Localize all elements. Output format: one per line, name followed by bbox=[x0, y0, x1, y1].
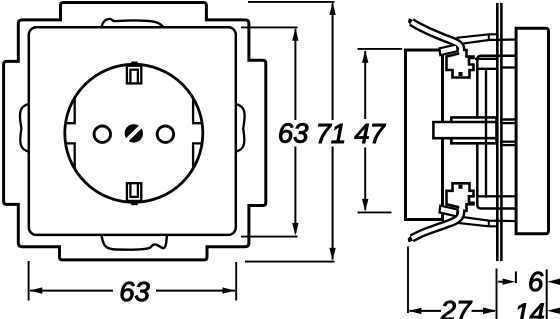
dimension 47: dimension line and arrows bbox=[364, 51, 366, 119]
top claw arm band bbox=[412, 22, 462, 50]
support ring (edge-on) bbox=[496, 3, 499, 261]
top claw block bbox=[447, 50, 474, 78]
plate bump top bbox=[102, 19, 164, 27]
bottom claw arm band bbox=[412, 211, 461, 239]
right pin hole bbox=[157, 126, 173, 142]
dimension 27: dimension line and arrows bbox=[410, 310, 442, 312]
left side pocket chords bbox=[65, 98, 75, 168]
top claw tip bbox=[408, 18, 417, 28]
plate bump bottom bbox=[101, 235, 166, 250]
dimension 27: extension lines bbox=[407, 247, 409, 314]
side view: insert body bbox=[406, 50, 443, 220]
dimension 6: tick and arrows bbox=[515, 272, 517, 284]
claw channel inner wall bbox=[485, 69, 487, 198]
dimension 71: extension lines bbox=[248, 1, 335, 3]
bottom claw tongue line bbox=[477, 195, 516, 197]
dimension 63 right: extension lines bbox=[241, 26, 298, 28]
bottom ground contact bbox=[131, 200, 138, 206]
dimension 71: dimension line and arrows bbox=[332, 3, 334, 120]
dimension 63 right: dimension line and arrows bbox=[294, 29, 296, 120]
top ground contact bbox=[131, 62, 138, 68]
dimension 14: arrows bbox=[480, 310, 489, 312]
plate bump right bbox=[236, 104, 245, 152]
side view: claw channel wall bbox=[477, 56, 515, 209]
svg-text:63: 63 bbox=[278, 117, 309, 148]
right side pocket chords bbox=[193, 98, 203, 168]
socket well circle bbox=[65, 64, 203, 202]
cover plate profile bbox=[516, 28, 548, 234]
bottom claw block bbox=[447, 183, 474, 211]
top claw arm band core bbox=[412, 22, 462, 55]
top claw tongue lines bbox=[475, 58, 497, 60]
svg-text:6: 6 bbox=[528, 266, 544, 297]
bottom claw mounting slat bbox=[440, 206, 458, 217]
dimension 47: extension lines bbox=[358, 48, 403, 50]
screw head lines upper bbox=[500, 118, 516, 121]
plate bump left bbox=[20, 104, 29, 152]
svg-text:14: 14 bbox=[514, 297, 545, 319]
top claw mounting slat bbox=[440, 44, 458, 55]
left pin hole bbox=[94, 126, 110, 142]
top claw leaf lines bbox=[457, 34, 498, 38]
front view: central cover plate (rounded square) bbox=[29, 27, 236, 235]
side view: centre screw boss bbox=[433, 117, 496, 143]
svg-text:63: 63 bbox=[119, 276, 150, 307]
bottom claw arm band core bbox=[412, 206, 461, 239]
dimension 63 bottom: dimension line and arrows bbox=[30, 290, 113, 292]
center screw bbox=[125, 124, 143, 142]
bottom claw tip bbox=[408, 233, 417, 242]
svg-text:71: 71 bbox=[316, 118, 347, 149]
dimension 63 bottom: extension lines bbox=[28, 261, 30, 301]
front view: socket frame outline with side tabs bbox=[4, 3, 266, 260]
screw head lines lower bbox=[500, 141, 516, 143]
svg-text:47: 47 bbox=[354, 118, 386, 149]
svg-text:27: 27 bbox=[440, 295, 473, 319]
bottom claw leaf lines bbox=[457, 223, 498, 227]
